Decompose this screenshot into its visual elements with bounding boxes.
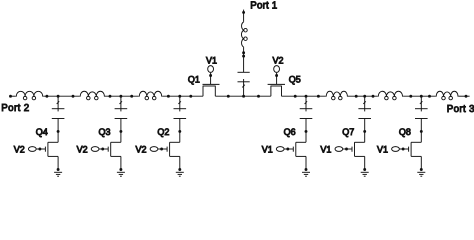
node Q1 gate pin dot bbox=[209, 74, 212, 77]
ground (Q2) bbox=[176, 171, 184, 173]
ground (Q7) bbox=[361, 171, 369, 173]
wire Q1 gate lead bbox=[210, 73, 212, 85]
transistor Q5 channel bar bbox=[271, 85, 282, 87]
node branch junction (Q6) bbox=[305, 95, 308, 98]
transistor Q1 source leg bbox=[202, 86, 204, 97]
transistor Q7 channel bar bbox=[354, 142, 356, 156]
inductor L7 (Port 1 branch) bbox=[241, 21, 243, 48]
node pin dot 2 bbox=[72, 95, 75, 98]
wire cap to Q6 drain bbox=[305, 119, 307, 143]
svg-text:Q1: Q1 bbox=[188, 74, 200, 84]
transistor Q7 drain lead bbox=[355, 141, 365, 143]
node Q5 gate pin dot bbox=[275, 74, 278, 77]
node pin dot 5 bbox=[167, 95, 170, 98]
svg-text:V1: V1 bbox=[262, 145, 273, 155]
node Q6 drain pin dot bbox=[305, 130, 308, 133]
wire C7 gap stub bbox=[243, 79, 245, 82]
node pin dot 4 bbox=[130, 95, 133, 98]
node ground pin dot (Q3) bbox=[119, 168, 122, 171]
capacitor C5 gap stub bbox=[364, 109, 366, 112]
transistor Q2 gate bar bbox=[166, 147, 168, 152]
capacitor C2 plate 2 bbox=[115, 118, 128, 120]
wire main line segment 7 bbox=[348, 95, 378, 97]
capacitor C1 plate 2 bbox=[52, 118, 65, 120]
inductor L5 bbox=[378, 91, 403, 96]
node Q8 drain pin dot bbox=[420, 130, 423, 133]
transistor Q6 drain lead bbox=[296, 141, 306, 143]
svg-text:Q2: Q2 bbox=[157, 127, 169, 137]
wire Port 1 lead bbox=[243, 10, 245, 22]
capacitor C3 gap stub bbox=[179, 109, 181, 112]
node Q8 gate pin dot bbox=[402, 148, 405, 151]
capacitor C6 gap stub bbox=[420, 109, 422, 112]
transistor Q5 gate bar bbox=[268, 83, 285, 85]
node pin dot 11 bbox=[355, 95, 358, 98]
svg-text:Q6: Q6 bbox=[284, 127, 296, 137]
svg-text:V2: V2 bbox=[14, 145, 25, 155]
svg-text:Q5: Q5 bbox=[289, 74, 301, 84]
wire cap to Q4 drain bbox=[57, 119, 59, 143]
capacitor C1 gap stub bbox=[57, 109, 59, 112]
wire stem to cap (Q4) bbox=[57, 96, 59, 109]
wire Q4 gate lead bbox=[36, 148, 45, 150]
capacitor C4 gap stub bbox=[305, 109, 307, 112]
transistor Q6 source lead bbox=[296, 155, 306, 157]
transistor Q2 drain lead bbox=[170, 141, 180, 143]
svg-text:Port 2: Port 2 bbox=[1, 103, 29, 114]
wire main line segment 1 bbox=[11, 95, 16, 97]
capacitor C2 plate 1 bbox=[115, 108, 128, 110]
ground (Q4) bbox=[54, 171, 62, 173]
ground (Q3) bbox=[117, 171, 125, 173]
inductor L1 bbox=[16, 91, 44, 96]
capacitor C3 plate 2 bbox=[174, 118, 187, 120]
svg-text:V2: V2 bbox=[136, 145, 147, 155]
capacitor C5 plate 2 bbox=[358, 118, 371, 120]
node Port1 junction bbox=[242, 95, 245, 98]
svg-text:V1: V1 bbox=[377, 145, 388, 155]
wire Q7 gate lead bbox=[343, 148, 352, 150]
node ground pin dot (Q4) bbox=[57, 168, 60, 171]
svg-text:Q7: Q7 bbox=[342, 127, 354, 137]
wire cap to Q2 drain bbox=[179, 119, 181, 143]
node ground pin dot (Q2) bbox=[178, 168, 181, 171]
node Q7 drain pin dot bbox=[363, 130, 366, 133]
svg-text:Port 3: Port 3 bbox=[447, 104, 474, 115]
pin tick cap (Q3) bbox=[120, 101, 123, 104]
transistor Q1 drain leg bbox=[214, 86, 216, 97]
node pin dot 12 bbox=[372, 95, 375, 98]
wire Q7 source to ground bbox=[364, 156, 366, 169]
capacitor C5 plate 1 bbox=[358, 108, 371, 110]
transistor Q5 drain leg bbox=[281, 86, 283, 97]
svg-text:Q3: Q3 bbox=[99, 127, 111, 137]
capacitor C7 plate 2 bbox=[238, 81, 250, 83]
transistor Q3 channel bar bbox=[110, 142, 112, 156]
node V1 pin ellipse (Q8) bbox=[392, 147, 400, 152]
pin tick cap (Q2) bbox=[178, 101, 181, 104]
svg-text:V2: V2 bbox=[77, 145, 88, 155]
inductor L6 bbox=[436, 91, 459, 96]
transistor Q3 gate bar bbox=[107, 147, 109, 152]
node wire pin dot bbox=[242, 55, 245, 58]
wire cap to Q3 drain bbox=[120, 119, 122, 143]
transistor Q6 channel bar bbox=[295, 142, 297, 156]
wire Q2 source to ground bbox=[179, 156, 181, 169]
wire Q6 source to ground bbox=[305, 156, 307, 169]
capacitor C6 plate 1 bbox=[415, 108, 428, 110]
svg-text:V1: V1 bbox=[206, 55, 217, 65]
node Q6 gate pin dot bbox=[286, 148, 289, 151]
node ground pin dot (Q8) bbox=[420, 168, 423, 171]
transistor Q2 source lead bbox=[170, 155, 180, 157]
transistor Q5 source leg bbox=[270, 86, 272, 97]
node pin dot 7 bbox=[227, 95, 230, 98]
inductor L3 bbox=[139, 91, 163, 96]
node branch junction (Q3) bbox=[119, 95, 122, 98]
pin tick cap (Q4) bbox=[57, 101, 60, 104]
node Q4 gate pin dot bbox=[38, 148, 41, 151]
wire cap to Q7 drain bbox=[364, 119, 366, 143]
transistor Q7 source lead bbox=[355, 155, 365, 157]
svg-text:V1: V1 bbox=[320, 145, 331, 155]
transistor Q4 gate bar bbox=[44, 147, 46, 152]
node branch junction (Q8) bbox=[420, 95, 423, 98]
inductor L4 bbox=[326, 91, 348, 96]
node V2 pin ellipse (Q4) bbox=[28, 147, 36, 152]
node Q3 gate pin dot bbox=[101, 148, 104, 151]
capacitor C1 plate 1 bbox=[52, 108, 65, 110]
capacitor C4 plate 1 bbox=[300, 108, 313, 110]
wire cap to Q8 drain bbox=[420, 119, 422, 143]
node Q7 gate pin dot bbox=[345, 148, 348, 151]
transistor Q4 channel bar bbox=[47, 142, 49, 156]
svg-text:V2: V2 bbox=[273, 55, 284, 65]
transistor Q4 source lead bbox=[48, 155, 58, 157]
wire stem to cap (Q3) bbox=[120, 96, 122, 109]
transistor Q1 channel bar bbox=[203, 85, 215, 87]
capacitor C3 plate 1 bbox=[174, 108, 187, 110]
wire stem to cap (Q2) bbox=[179, 96, 181, 109]
transistor Q7 gate bar bbox=[351, 147, 353, 152]
node V1 pin ellipse (Q1) bbox=[208, 66, 214, 73]
node Q2 gate pin dot bbox=[160, 148, 163, 151]
transistor Q6 gate bar bbox=[292, 147, 294, 152]
node branch junction (Q4) bbox=[57, 95, 60, 98]
wire main line segment 2 bbox=[43, 95, 79, 97]
wire stem to cap (Q7) bbox=[364, 96, 366, 109]
wire Q8 source to ground bbox=[420, 156, 422, 169]
ground (Q6) bbox=[302, 171, 310, 173]
node ground pin dot (Q6) bbox=[305, 168, 308, 171]
node pin dot 6 bbox=[189, 95, 192, 98]
wire main line segment 6 bbox=[282, 95, 326, 97]
node branch junction (Q7) bbox=[363, 95, 366, 98]
capacitor C6 plate 2 bbox=[415, 118, 428, 120]
inductor L2 bbox=[80, 91, 105, 96]
pin tick cap (Q7) bbox=[363, 101, 366, 104]
wire main line segment 8 bbox=[403, 95, 436, 97]
wire Q5 gate lead bbox=[276, 73, 278, 85]
capacitor C4 plate 2 bbox=[300, 118, 313, 120]
wire main line segment 9 bbox=[459, 95, 470, 97]
capacitor C7 plate 1 bbox=[238, 71, 250, 73]
wire main line segment 5 bbox=[215, 95, 271, 97]
node L7 bottom pin dot bbox=[242, 51, 245, 54]
node Port 3 pin bbox=[465, 95, 468, 98]
node V1 pin ellipse (Q7) bbox=[335, 147, 343, 152]
node V1 pin ellipse (Q6) bbox=[276, 147, 284, 152]
pin tick C7 bbox=[242, 85, 245, 88]
wire Q8 gate lead bbox=[399, 148, 408, 150]
wire stem to cap (Q8) bbox=[420, 96, 422, 109]
transistor Q8 channel bar bbox=[410, 142, 412, 156]
node Q4 drain pin dot bbox=[57, 130, 60, 133]
svg-text:Port 1: Port 1 bbox=[250, 0, 277, 11]
node branch junction (Q2) bbox=[178, 95, 181, 98]
transistor Q8 source lead bbox=[411, 155, 421, 157]
node Port 1 pin dot bbox=[242, 11, 245, 14]
node pin dot 10 bbox=[317, 95, 320, 98]
node pin dot 13 bbox=[409, 95, 412, 98]
transistor Q2 channel bar bbox=[169, 142, 171, 156]
wire Q6 gate lead bbox=[284, 148, 293, 150]
wire C7 to main line bbox=[243, 82, 245, 96]
node Q3 drain pin dot bbox=[119, 130, 122, 133]
node V2 pin ellipse (Q3) bbox=[91, 147, 99, 152]
svg-text:Q8: Q8 bbox=[399, 127, 411, 137]
node ground pin dot (Q7) bbox=[363, 168, 366, 171]
pin tick cap (Q6) bbox=[305, 101, 308, 104]
node pin dot 1 bbox=[45, 95, 48, 98]
wire main line segment 4 bbox=[162, 95, 203, 97]
node V2 pin ellipse (Q2) bbox=[150, 147, 158, 152]
node pin dot 8 bbox=[257, 95, 260, 98]
transistor Q8 gate bar bbox=[408, 147, 410, 152]
wire Q3 source to ground bbox=[120, 156, 122, 169]
transistor Q3 source lead bbox=[111, 155, 121, 157]
wire Q3 gate lead bbox=[99, 148, 108, 150]
wire stem to cap (Q6) bbox=[305, 96, 307, 109]
svg-text:Q4: Q4 bbox=[36, 127, 48, 137]
node Port 2 pin bbox=[9, 95, 12, 98]
transistor Q3 drain lead bbox=[111, 141, 121, 143]
node Q2 drain pin dot bbox=[178, 130, 181, 133]
wire L7 to C7 bbox=[243, 48, 245, 73]
wire main line segment 3 bbox=[105, 95, 139, 97]
transistor Q1 gate bar bbox=[203, 83, 220, 85]
capacitor C2 gap stub bbox=[120, 109, 122, 112]
wire Q4 source to ground bbox=[57, 156, 59, 169]
wire Q2 gate lead bbox=[158, 148, 167, 150]
transistor Q8 drain lead bbox=[411, 141, 421, 143]
node pin dot 3 bbox=[109, 95, 112, 98]
ground (Q8) bbox=[417, 171, 425, 173]
node pin dot 9 bbox=[294, 95, 297, 98]
transistor Q4 drain lead bbox=[48, 141, 58, 143]
node V2 pin ellipse (Q5) bbox=[274, 66, 280, 73]
node pin dot 14 bbox=[428, 95, 431, 98]
pin tick cap (Q8) bbox=[420, 101, 423, 104]
